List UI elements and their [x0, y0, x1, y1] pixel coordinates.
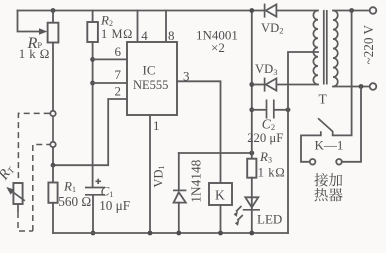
switch K-1 blade — [318, 118, 333, 135]
wire RP wiper feedback loop — [18, 11, 41, 32]
svg-text:K—1: K—1 — [315, 138, 344, 153]
wire RP top lead — [52, 11, 54, 23]
svg-text:RT: RT — [0, 161, 17, 183]
node A junction (R1/RT/pin2) — [51, 163, 56, 168]
svg-text:VD1: VD1 — [152, 165, 167, 187]
LED cathode bar — [243, 209, 260, 211]
wire V+ column (rail to R3) — [251, 11, 253, 159]
thermistor RT — [13, 183, 22, 204]
node mains bottom junction — [359, 84, 364, 89]
LED arrows — [236, 206, 242, 212]
svg-text:1 k Ω: 1 k Ω — [19, 47, 50, 61]
diode VD3 triangle — [266, 78, 277, 90]
svg-text:~220 V: ~220 V — [361, 25, 376, 65]
svg-text:C2: C2 — [262, 117, 275, 132]
transformer T primary winding — [333, 11, 338, 87]
svg-text:6: 6 — [115, 44, 122, 59]
wire heater jack right to mains bottom — [342, 87, 361, 162]
resistor R1 — [48, 183, 57, 203]
wire pin 6 — [93, 58, 127, 60]
wire R1 top lead — [52, 165, 54, 182]
wire pin 3 to relay K — [177, 81, 221, 183]
wire dashed lead jack1 to RT top — [18, 113, 49, 182]
node pin7 junction — [90, 81, 95, 86]
wire VD3 anode to transformer bottom — [276, 84, 318, 86]
wire pin 2 — [53, 99, 127, 165]
svg-text:7: 7 — [115, 67, 122, 82]
wire R2 bottom down to C1 (pins 6,7 column) — [92, 42, 94, 187]
wire RP bottom to jack 1 — [52, 43, 54, 111]
wire transformer centre tap to ground column — [288, 52, 318, 233]
capacitor C1 plus sign — [96, 179, 102, 184]
svg-text:T: T — [319, 92, 328, 107]
wire jack 2 down to node A — [52, 147, 54, 165]
wire mains to switch — [333, 11, 352, 136]
node K ground — [218, 231, 223, 236]
terminal heater left — [310, 159, 316, 165]
node pin6 junction — [90, 57, 95, 62]
node C1 ground — [91, 231, 96, 236]
wire R2 top lead — [92, 11, 94, 23]
node VD1 ground — [176, 231, 181, 236]
label 接加热器 — [314, 173, 328, 187]
svg-text:4: 4 — [141, 28, 148, 43]
resistor R3 — [247, 159, 256, 178]
wire primary bottom to mains terminal — [333, 86, 370, 88]
capacitor C2 — [266, 100, 268, 119]
terminal heater right — [336, 159, 342, 165]
svg-text:IC: IC — [143, 63, 156, 78]
capacitor C1 — [85, 187, 105, 189]
svg-text:LED: LED — [257, 212, 282, 227]
relay K coil — [209, 183, 232, 205]
svg-text:K: K — [215, 188, 225, 203]
wire bottom ground rail — [53, 232, 288, 234]
wire between jacks — [52, 116, 54, 142]
svg-text:VD2: VD2 — [261, 21, 283, 36]
svg-text:1: 1 — [153, 118, 160, 133]
capacitor C2 right lead — [275, 109, 288, 111]
capacitor C2 left lead — [252, 109, 266, 111]
node jack J1 (thermistor socket top) — [50, 111, 55, 116]
op-amp U1 IC NE555 body — [127, 42, 177, 115]
wire VD2 anode to transformer — [276, 10, 318, 12]
terminal mains top — [370, 7, 377, 14]
RT variable arrow — [10, 190, 25, 201]
wire R1 bottom to ground rail — [52, 203, 54, 233]
transformer core — [324, 10, 327, 85]
svg-text:8: 8 — [168, 28, 175, 43]
diode VD1 cathode bar — [173, 189, 186, 191]
svg-text:×2: ×2 — [211, 40, 225, 55]
svg-text:1N4148: 1N4148 — [189, 159, 204, 202]
node R3 top junction — [249, 151, 254, 156]
node C2 right junction — [286, 107, 291, 112]
diode VD2 cathode bar — [264, 4, 266, 18]
terminal mains bottom — [370, 83, 377, 90]
wire pin 1 to ground — [149, 115, 151, 233]
svg-text:R1: R1 — [63, 179, 76, 194]
svg-text:C1: C1 — [101, 183, 114, 198]
wire VD1 top / R3 top link — [179, 152, 252, 154]
svg-text:R2: R2 — [100, 13, 113, 28]
svg-text:1 MΩ: 1 MΩ — [101, 27, 133, 41]
svg-text:R3: R3 — [259, 149, 272, 164]
svg-text:220 μF: 220 μF — [247, 131, 283, 145]
LED triangle — [245, 197, 258, 207]
node C2 left junction — [249, 107, 254, 112]
svg-text:VD3: VD3 — [255, 62, 277, 77]
wire RT bottom dashed to jack 2 — [17, 204, 19, 212]
diode VD1 triangle — [174, 192, 186, 202]
diode VD3 cathode bar — [264, 78, 266, 92]
wire pin 7 — [93, 82, 127, 84]
diode VD2 triangle — [266, 4, 277, 16]
node mains top junction — [349, 8, 354, 13]
wire LED to ground — [251, 210, 253, 233]
node V+ top rail — [249, 8, 254, 13]
svg-text:NE555: NE555 — [133, 78, 168, 92]
node LED ground — [249, 231, 254, 236]
svg-text:10 μF: 10 μF — [99, 198, 130, 213]
wire VD1 cathode lead — [178, 153, 180, 189]
wire R3 to LED — [251, 178, 253, 210]
resistor R2 — [87, 22, 98, 42]
wire VD3 cathode to V+ column — [252, 84, 265, 86]
node jack J2 (thermistor socket bottom) — [50, 142, 55, 147]
potentiometer RP — [48, 23, 59, 43]
wire pin 4 — [137, 11, 139, 43]
wire top positive rail — [18, 10, 265, 12]
node top rail / RP junction — [51, 8, 56, 13]
wire VD1 anode to ground — [178, 203, 180, 233]
node VD3 junction — [249, 82, 254, 87]
svg-text:2: 2 — [115, 83, 122, 98]
svg-text:560 Ω: 560 Ω — [58, 194, 91, 209]
wire primary top to mains terminal — [333, 10, 370, 12]
svg-text:1 kΩ: 1 kΩ — [258, 165, 286, 179]
wire switch to heater jack left — [301, 135, 321, 161]
wire pin 8 — [165, 11, 167, 43]
transformer T secondary winding — [313, 11, 318, 85]
node pin1 ground — [148, 231, 153, 236]
wire C1 bottom lead — [92, 196, 94, 233]
wire K bottom to ground — [220, 205, 222, 233]
RP wiper arrowhead — [39, 28, 47, 35]
